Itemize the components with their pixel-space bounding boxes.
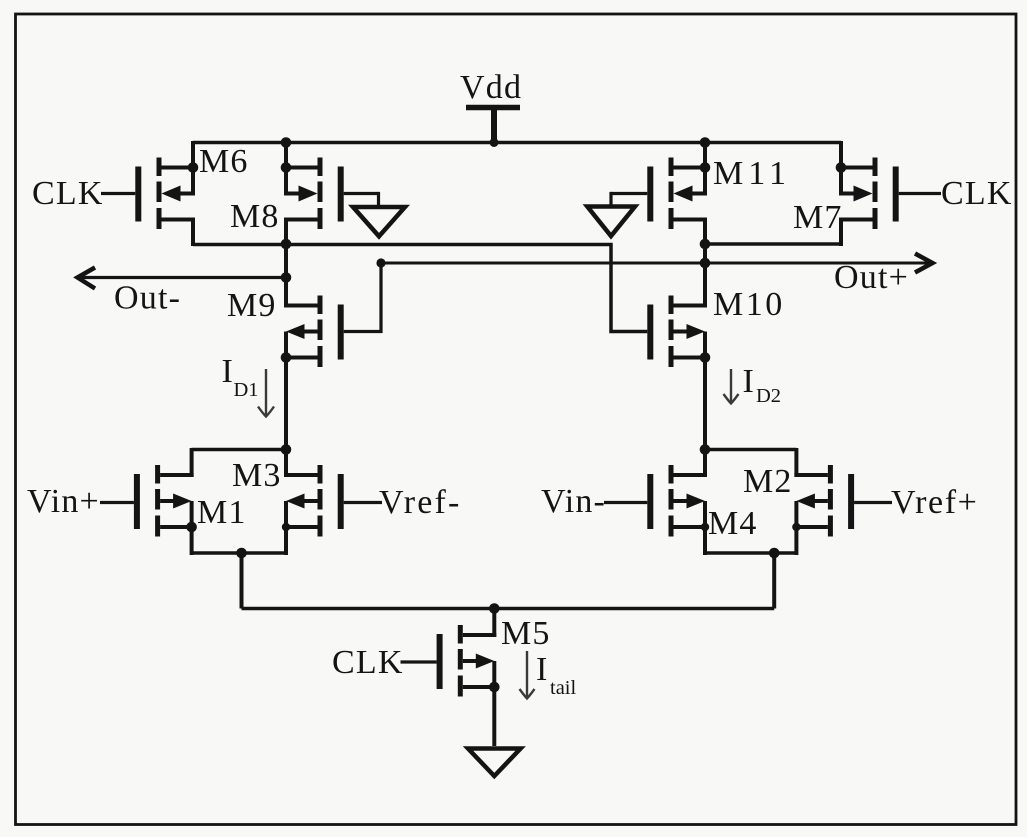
svg-text:M2: M2	[743, 463, 793, 500]
svg-text:I: I	[222, 353, 235, 390]
svg-text:M8: M8	[230, 198, 280, 235]
svg-text:M7: M7	[793, 199, 843, 236]
svg-text:M6: M6	[199, 143, 249, 180]
svg-text:I: I	[743, 363, 756, 400]
svg-text:M9: M9	[227, 287, 277, 324]
svg-text:CLK: CLK	[332, 644, 404, 681]
svg-text:M10: M10	[713, 286, 785, 323]
svg-text:CLK: CLK	[32, 175, 104, 212]
svg-text:tail: tail	[550, 677, 576, 699]
svg-text:Vref-: Vref-	[379, 484, 462, 521]
svg-text:Out+: Out+	[834, 259, 909, 296]
svg-text:Vdd: Vdd	[460, 69, 522, 106]
svg-text:I: I	[536, 651, 549, 688]
svg-text:M5: M5	[501, 615, 551, 652]
svg-text:M1: M1	[197, 494, 247, 531]
svg-text:Vref+: Vref+	[891, 484, 978, 521]
svg-text:D1: D1	[234, 379, 259, 401]
svg-text:Out-: Out-	[114, 280, 181, 317]
svg-text:M3: M3	[232, 457, 282, 494]
svg-text:Vin-: Vin-	[541, 483, 606, 520]
svg-text:CLK: CLK	[941, 175, 1013, 212]
svg-text:M4: M4	[708, 505, 758, 542]
svg-text:Vin+: Vin+	[27, 483, 100, 520]
svg-text:M11: M11	[713, 155, 791, 192]
svg-text:D2: D2	[756, 385, 781, 407]
